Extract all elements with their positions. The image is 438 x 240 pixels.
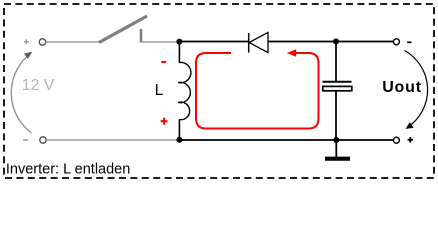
wire node A to diode bbox=[179, 41, 249, 43]
wire node B to output top bbox=[336, 41, 394, 43]
node A junction bbox=[176, 39, 182, 45]
switch S1 open bbox=[99, 16, 147, 43]
svg-text:Inverter: L entladen: Inverter: L entladen bbox=[6, 161, 130, 177]
polarity minus red (inductor top) bbox=[161, 61, 166, 63]
wire bottom black bbox=[180, 139, 394, 141]
output plus label bbox=[408, 137, 413, 143]
diode D1 bbox=[249, 32, 268, 52]
node D junction (capacitor bottom) bbox=[333, 137, 339, 143]
svg-text:12 V: 12 V bbox=[22, 77, 55, 94]
ground bbox=[325, 140, 350, 159]
output terminal bottom bbox=[393, 137, 399, 143]
current loop red arrow bbox=[196, 49, 319, 128]
output minus label bbox=[407, 41, 411, 43]
wire top left gray bbox=[46, 41, 100, 43]
svg-text:L: L bbox=[155, 82, 164, 99]
wire bottom left gray bbox=[46, 139, 179, 141]
svg-text:Uout: Uout bbox=[382, 79, 422, 96]
inductor L bbox=[155, 42, 191, 140]
node C junction (bottom) bbox=[176, 137, 182, 143]
Uout arrow arc bbox=[404, 51, 428, 132]
voltage source V1 12 V bbox=[11, 39, 55, 143]
wire diode to node B bbox=[268, 41, 336, 43]
output terminal top bbox=[393, 39, 399, 45]
polarity plus red (inductor bottom) bbox=[161, 118, 168, 125]
node B junction bbox=[333, 38, 339, 44]
wire switch to node A gray bbox=[142, 41, 179, 43]
capacitor C1 bbox=[323, 42, 352, 141]
